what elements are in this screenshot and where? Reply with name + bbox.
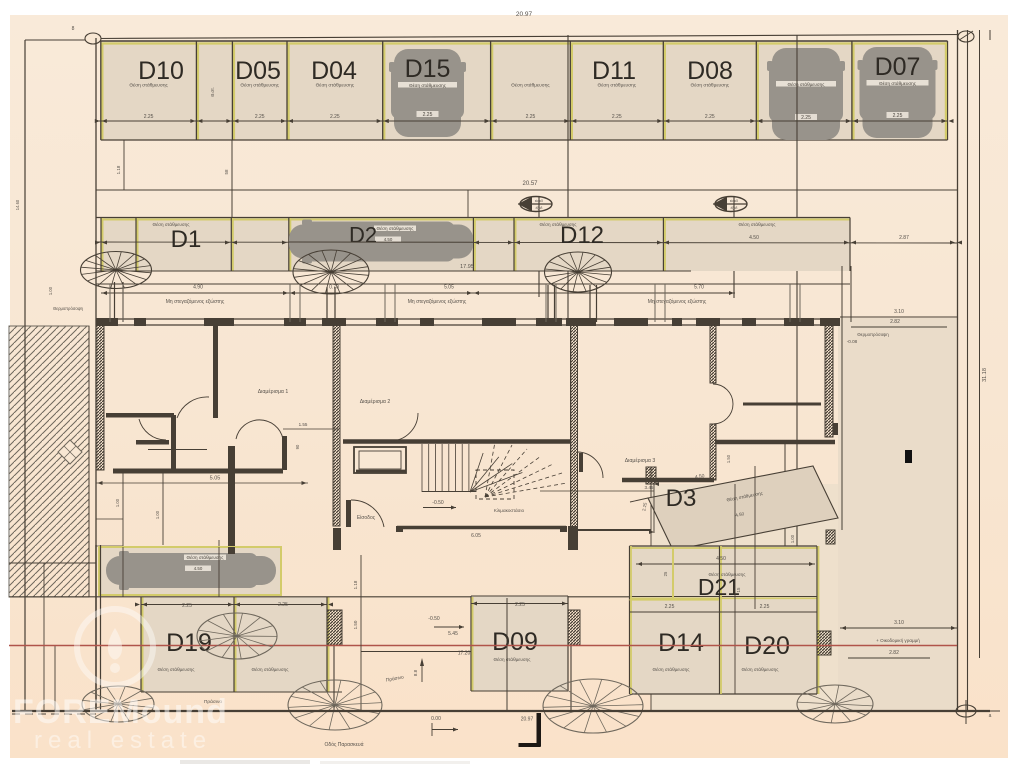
svg-text:20.97: 20.97 (516, 11, 533, 18)
svg-text:8: 8 (72, 26, 75, 32)
svg-text:real estate: real estate (34, 727, 212, 754)
svg-text:D15: D15 (405, 55, 451, 83)
svg-text:Θέση στάθμευσης: Θέση στάθμευσης (153, 221, 191, 227)
svg-text:8.8: 8.8 (413, 669, 418, 676)
svg-text:D07: D07 (875, 53, 921, 81)
svg-text:Οδός Παρασκευά: Οδός Παρασκευά (325, 741, 364, 748)
svg-text:Θέση στάθμευσης: Θέση στάθμευσης (598, 82, 637, 89)
svg-text:Θέση στάθμευσης: Θέση στάθμευσης (742, 666, 780, 672)
svg-text:1.50: 1.50 (353, 620, 358, 629)
svg-text:1.00: 1.00 (115, 498, 120, 507)
svg-text:-0.08: -0.08 (847, 339, 858, 344)
svg-text:Θέση στάθμευσης: Θέση στάθμευσης (540, 221, 578, 227)
svg-text:D08: D08 (687, 57, 733, 85)
svg-text:2.25: 2.25 (255, 114, 265, 120)
svg-text:58: 58 (224, 169, 229, 175)
svg-text:2.82: 2.82 (889, 650, 899, 656)
svg-text:Διαμέρισμα 3: Διαμέρισμα 3 (625, 457, 656, 464)
svg-text:D10: D10 (138, 57, 184, 85)
svg-text:1.00: 1.00 (790, 534, 795, 543)
svg-text:3.45: 3.45 (645, 485, 654, 490)
svg-text:20.97: 20.97 (521, 717, 534, 723)
svg-text:90: 90 (295, 444, 300, 449)
svg-text:15: 15 (736, 587, 741, 593)
svg-text:1.50: 1.50 (726, 454, 731, 463)
svg-text:6.05: 6.05 (471, 533, 481, 539)
svg-text:Θέση στάθμευσης: Θέση στάθμευσης (158, 666, 196, 672)
svg-text:4.50: 4.50 (384, 237, 393, 242)
svg-text:5.70: 5.70 (694, 285, 704, 291)
svg-text:-0.50: -0.50 (432, 500, 444, 506)
svg-text:Θερμοπρόσοψη: Θερμοπρόσοψη (53, 306, 84, 311)
svg-text:17.20: 17.20 (458, 651, 471, 657)
svg-text:D14: D14 (658, 629, 704, 657)
svg-text:2.25: 2.25 (526, 114, 536, 120)
svg-text:a: a (989, 713, 992, 719)
svg-text:Θ.στ.: Θ.στ. (210, 87, 215, 97)
svg-text:2.25: 2.25 (612, 114, 622, 120)
svg-text:Μη στεγαζόμενος εξώστης: Μη στεγαζόμενος εξώστης (648, 298, 707, 305)
svg-text:Θέση στάθμευσης: Θέση στάθμευσης (240, 82, 279, 89)
svg-text:5.05: 5.05 (444, 285, 454, 291)
svg-text:2.82: 2.82 (890, 319, 900, 325)
svg-text:3.10: 3.10 (894, 620, 904, 626)
svg-text:1.00: 1.00 (48, 286, 53, 295)
svg-text:Είσοδος: Είσοδος (357, 515, 376, 521)
svg-text:14.60: 14.60 (15, 199, 20, 210)
svg-text:D04: D04 (311, 57, 357, 85)
svg-text:5.45: 5.45 (448, 631, 458, 637)
svg-text:1.00: 1.00 (155, 510, 160, 519)
svg-text:FOREMound: FOREMound (13, 693, 228, 731)
svg-text:4.90: 4.90 (193, 285, 203, 291)
svg-text:Θέση στάθμευσης: Θέση στάθμευσης (316, 82, 355, 89)
svg-text:2.25: 2.25 (665, 604, 675, 610)
svg-text:2.25: 2.25 (423, 112, 433, 118)
svg-text:3.10: 3.10 (894, 309, 904, 315)
svg-text:Διαμέρισμα 2: Διαμέρισμα 2 (360, 398, 391, 405)
svg-text:5.05: 5.05 (210, 476, 221, 482)
svg-text:2.25: 2.25 (760, 604, 770, 610)
svg-text:31.18: 31.18 (982, 368, 988, 382)
svg-text:Θέση στάθμευσης: Θέση στάθμευσης (494, 656, 532, 662)
svg-text:4.50: 4.50 (716, 556, 726, 562)
svg-text:1.18: 1.18 (116, 165, 121, 174)
svg-text:4.50: 4.50 (194, 566, 203, 571)
svg-text:D21: D21 (698, 574, 740, 600)
svg-text:Θέση στάθμευσης: Θέση στάθμευσης (788, 81, 826, 87)
svg-text:Θέση στάθμευσης: Θέση στάθμευσης (691, 82, 730, 89)
svg-text:D3: D3 (666, 485, 697, 512)
svg-text:Κλιμακοστάσιο: Κλιμακοστάσιο (494, 507, 525, 513)
svg-text:D11: D11 (592, 57, 636, 85)
svg-text:Θέση στάθμευσης: Θέση στάθμευσης (252, 666, 290, 672)
svg-text:Μη στεγαζόμενος εξώστης: Μη στεγαζόμενος εξώστης (408, 298, 467, 305)
svg-text:Θέση στάθμευσης: Θέση στάθμευσης (739, 221, 777, 227)
svg-text:2.25: 2.25 (893, 113, 903, 119)
svg-text:0.00: 0.00 (431, 716, 441, 722)
svg-text:25: 25 (663, 571, 668, 576)
svg-text:D09: D09 (492, 628, 538, 656)
svg-text:1.55: 1.55 (299, 422, 308, 427)
svg-text:D2: D2 (349, 223, 377, 248)
svg-text:2.25: 2.25 (182, 603, 192, 609)
svg-text:D1: D1 (171, 226, 202, 253)
svg-text:Θέση στάθμευσης: Θέση στάθμευσης (653, 666, 691, 672)
svg-text:20.57: 20.57 (522, 181, 538, 187)
svg-text:2.25: 2.25 (515, 602, 525, 608)
svg-text:Μη στεγαζόμενος εξώστης: Μη στεγαζόμενος εξώστης (166, 298, 225, 305)
svg-text:Θέση στάθμευσης: Θέση στάθμευσης (511, 82, 550, 89)
svg-text:1.18: 1.18 (353, 580, 358, 589)
svg-text:Θερμοπρόσοψη: Θερμοπρόσοψη (857, 332, 889, 337)
svg-text:D05: D05 (235, 57, 281, 85)
svg-text:Θέση στάθμευσης: Θέση στάθμευσης (377, 225, 415, 231)
svg-text:2.87: 2.87 (899, 235, 909, 241)
svg-text:Θέση στάθμευσης: Θέση στάθμευσης (129, 82, 168, 89)
svg-text:+ Οικοδομική γραμμή: + Οικοδομική γραμμή (876, 637, 920, 643)
svg-text:2.25: 2.25 (705, 114, 715, 120)
svg-text:2.25: 2.25 (144, 114, 154, 120)
svg-text:-0.50: -0.50 (428, 616, 440, 622)
svg-text:2.25: 2.25 (801, 115, 811, 121)
svg-text:Θέση στάθμευσης: Θέση στάθμευσης (709, 571, 747, 577)
svg-text:4.50: 4.50 (749, 235, 759, 241)
svg-text:Διαμέρισμα 1: Διαμέρισμα 1 (258, 388, 289, 395)
svg-text:2.25: 2.25 (278, 602, 288, 608)
svg-text:17.95: 17.95 (460, 264, 474, 270)
svg-text:2.25: 2.25 (330, 114, 340, 120)
svg-text:D19: D19 (166, 629, 212, 657)
